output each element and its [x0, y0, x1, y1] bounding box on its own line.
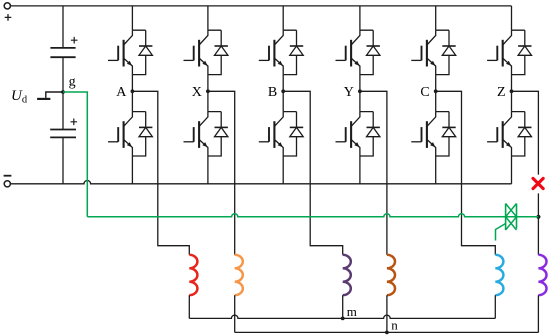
- node A junction dot: [131, 89, 135, 93]
- wire lower emitter to bottom bus: [282, 156, 284, 184]
- wire leg3 collector from top bus: [282, 6, 284, 30]
- Ud voltage probe mark: [37, 92, 63, 99]
- wire upper emitter to node B: [282, 75, 284, 92]
- wire lower emitter to bottom bus: [435, 156, 437, 184]
- wire lower emitter to bottom bus: [207, 156, 209, 184]
- wire node A to lower IGBT collector: [131, 91, 133, 111]
- svg-text:g: g: [69, 75, 76, 90]
- IGBT VT3 (upper, phase X): [184, 30, 208, 74]
- diode VD1 (anti-parallel, upper): [132, 30, 152, 74]
- minus label at negative terminal: [4, 175, 12, 177]
- svg-text:Z: Z: [497, 85, 506, 100]
- IGBT VT1 (upper, phase A): [108, 30, 132, 74]
- diode VD11 (anti-parallel, upper): [512, 30, 532, 74]
- wire phase Z output (upper section, broken): [512, 91, 539, 174]
- svg-text:m: m: [347, 304, 357, 319]
- diode VD6 (anti-parallel, lower): [283, 112, 303, 156]
- wire C1 to node g: [62, 57, 64, 92]
- wire upper emitter to node Z: [511, 75, 513, 92]
- wire upper emitter to node A: [131, 75, 133, 92]
- inductor winding Z (violet): [538, 255, 546, 295]
- IGBT VT9 (upper, phase C): [411, 30, 435, 74]
- node m junction dot: [341, 317, 345, 321]
- svg-text:n: n: [391, 318, 398, 333]
- wire lower emitter to bottom bus: [511, 156, 513, 184]
- neutral n rail: [235, 331, 539, 333]
- diode VD5 (anti-parallel, upper): [283, 30, 303, 74]
- top DC bus wire: [10, 5, 511, 7]
- plus polarity mark of C2: [71, 119, 78, 126]
- diode VD4 (anti-parallel, lower): [208, 112, 228, 156]
- diode VD10 (anti-parallel, lower): [436, 112, 456, 156]
- diode VD3 (anti-parallel, upper): [208, 30, 228, 74]
- plus label at positive terminal: [5, 14, 12, 21]
- inductor winding B (dark purple): [343, 255, 351, 295]
- wire lower emitter to bottom bus: [359, 156, 361, 184]
- wire node C to lower IGBT collector: [435, 91, 437, 111]
- node B junction dot: [281, 89, 285, 93]
- IGBT VT6 (lower, phase B): [259, 112, 283, 156]
- svg-text:A: A: [116, 85, 127, 100]
- diode VD12 (anti-parallel, lower): [512, 112, 532, 156]
- IGBT VT12 (lower, phase Z): [487, 112, 511, 156]
- IGBT VT11 (upper, phase Z): [487, 30, 511, 74]
- wire lower emitter to bottom bus: [131, 156, 133, 184]
- wire phase A output to winding: [132, 91, 189, 255]
- svg-text:X: X: [192, 85, 202, 100]
- node n junction dot: [385, 331, 389, 335]
- triac TR (bidirectional switch): [506, 204, 517, 231]
- svg-text:Y: Y: [344, 85, 354, 100]
- red X fault mark on phase Z wire: [533, 178, 543, 188]
- wire from top bus to capacitor C1: [62, 6, 64, 48]
- wire phase Z output (lower section): [537, 193, 539, 254]
- node C junction dot: [434, 89, 438, 93]
- capacitor C1 (upper DC-link cap): [50, 48, 75, 57]
- wire node g to capacitor C2: [62, 92, 64, 130]
- wire node Z to lower IGBT collector: [511, 91, 513, 111]
- wire winding C to m rail: [494, 295, 496, 318]
- positive DC terminal: [4, 3, 10, 9]
- wire phase B output to winding: [283, 91, 343, 255]
- inductor winding A (red): [189, 255, 197, 295]
- wire upper emitter to node Y: [359, 75, 361, 92]
- IGBT VT8 (lower, phase Y): [336, 112, 360, 156]
- wire winding B to m rail: [342, 295, 344, 318]
- diode VD7 (anti-parallel, upper): [360, 30, 380, 74]
- plus polarity mark of C1: [71, 37, 78, 44]
- triac gate lead: [496, 224, 506, 241]
- junction dot of triac output on phase Z wire: [536, 215, 540, 219]
- wire upper emitter to node C: [435, 75, 437, 92]
- IGBT VT10 (lower, phase C): [411, 112, 435, 156]
- green wire horizontal run (hops over X, Y, C wires): [87, 214, 538, 217]
- wire leg5 collector from top bus: [435, 6, 437, 30]
- wire node Y to lower IGBT collector: [359, 91, 361, 111]
- diode VD8 (anti-parallel, lower): [360, 112, 380, 156]
- diode VD9 (anti-parallel, upper): [436, 30, 456, 74]
- node X junction dot: [206, 89, 210, 93]
- inductor winding Y (brown): [387, 255, 395, 295]
- wire winding Y to n rail: [386, 295, 388, 332]
- node Z junction dot: [510, 89, 514, 93]
- IGBT VT5 (upper, phase B): [259, 30, 283, 74]
- bottom DC bus wire (hops over green wire): [10, 181, 511, 184]
- wire node X to lower IGBT collector: [207, 91, 209, 111]
- svg-text:Ud: Ud: [11, 88, 28, 106]
- wire leg6 collector from top bus: [511, 6, 513, 30]
- svg-text:B: B: [268, 85, 277, 100]
- inductor winding C (cyan): [495, 255, 503, 295]
- green wire from node g down: [63, 92, 87, 217]
- svg-text:C: C: [420, 85, 429, 100]
- wire phase X output to winding: [208, 91, 235, 255]
- wire node B to lower IGBT collector: [282, 91, 284, 111]
- wire phase Y output to winding: [360, 91, 387, 255]
- diode VD2 (anti-parallel, lower): [132, 112, 152, 156]
- wire winding X down to neutral n rail: [234, 295, 236, 332]
- capacitor C2 (lower DC-link cap): [50, 130, 76, 138]
- IGBT VT4 (lower, phase X): [184, 112, 208, 156]
- inductor winding X (orange): [235, 255, 243, 295]
- wire phase C output to winding: [436, 91, 496, 255]
- wire C2 to bottom bus: [62, 137, 64, 183]
- wire leg1 collector from top bus: [131, 6, 133, 30]
- wire winding Z to n rail: [537, 295, 539, 332]
- wire upper emitter to node X: [207, 75, 209, 92]
- wire winding A to neutral m rail: [188, 295, 190, 318]
- neutral m rail (hops over X and Y wires): [189, 315, 495, 318]
- IGBT VT2 (lower, phase A): [108, 112, 132, 156]
- negative DC terminal: [4, 181, 10, 187]
- wire leg2 collector from top bus: [207, 6, 209, 30]
- IGBT VT7 (upper, phase Y): [336, 30, 360, 74]
- node g junction dot: [61, 90, 65, 94]
- node Y junction dot: [358, 89, 362, 93]
- wire leg4 collector from top bus: [359, 6, 361, 30]
